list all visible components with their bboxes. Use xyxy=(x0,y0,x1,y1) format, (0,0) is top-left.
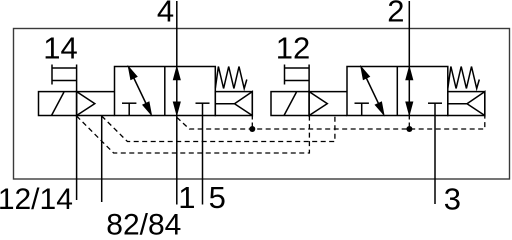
V2 right square flow arrows (up/down) xyxy=(406,68,412,114)
V1 right square blocked port T xyxy=(196,103,210,115)
pilot triangle V1 right xyxy=(235,92,253,116)
svg-text:5: 5 xyxy=(209,180,226,215)
V2 right square blocked port T xyxy=(428,103,442,115)
V1 left square blocked port T xyxy=(122,103,136,115)
valve body V1 separator xyxy=(164,67,166,116)
V2 left square blocked port T xyxy=(355,103,369,115)
wire port 2 line xyxy=(408,1,410,116)
wire pilot 12/14 xyxy=(76,116,78,201)
pilot box V2 right xyxy=(448,92,485,116)
junction dot V1 drain xyxy=(249,126,255,132)
pilot port symbol 12 xyxy=(285,65,310,92)
solenoid coil V1 xyxy=(39,92,77,116)
junction dot V2 xyxy=(406,126,412,132)
wire port 5 xyxy=(202,116,204,205)
svg-text:12/14: 12/14 xyxy=(0,183,73,216)
wire port 4 / port 1 line xyxy=(176,1,178,205)
svg-text:12: 12 xyxy=(276,30,310,65)
pilot line 12/14 to V2 (dashed) xyxy=(77,116,310,153)
V1 left square flow arrow xyxy=(129,68,151,115)
pilot line 82/84 to V2 (dashed) xyxy=(102,116,335,142)
pilot box V1 right xyxy=(215,92,252,116)
valve body V1 xyxy=(115,67,216,116)
solenoid coil V2 xyxy=(271,92,309,116)
pilot stub V2 arrow (dashed) xyxy=(408,116,410,130)
svg-text:3: 3 xyxy=(444,181,461,216)
pilot triangle V2 xyxy=(309,92,327,116)
valve body V2 separator xyxy=(396,67,398,116)
solenoid V1 diagonal xyxy=(52,92,65,116)
svg-text:82/84: 82/84 xyxy=(106,208,181,239)
return spring V1 xyxy=(215,67,247,89)
V1 right square flow arrows (up/down) xyxy=(174,68,180,114)
border frame xyxy=(14,29,510,180)
valve body V2 xyxy=(347,67,448,116)
return spring V2 xyxy=(448,67,480,89)
pilot drain stub V1 (dashed) xyxy=(251,116,253,130)
pilot cell V1 bottom edge xyxy=(77,115,115,117)
pilot apex line V1 right xyxy=(215,103,234,105)
svg-text:2: 2 xyxy=(387,0,404,28)
pilot exhaust bus (dashed) xyxy=(177,116,485,129)
pilot cell V1 top edge xyxy=(77,91,115,93)
wire pilot 82/84 xyxy=(101,116,103,203)
svg-text:4: 4 xyxy=(157,0,174,28)
pilot cell V2 top edge xyxy=(309,91,347,93)
solenoid V2 diagonal xyxy=(284,92,297,116)
pilot apex line V2 right xyxy=(448,103,467,105)
pilot triangle V1 xyxy=(77,92,95,116)
svg-text:1: 1 xyxy=(178,180,195,215)
pilot port symbol 14 xyxy=(52,65,77,92)
svg-text:14: 14 xyxy=(43,30,77,65)
pilot triangle V2 right xyxy=(467,92,485,116)
wire port 3 xyxy=(434,116,436,205)
pilot cell V2 bottom edge xyxy=(309,115,347,117)
V2 left square flow arrow xyxy=(361,68,383,115)
